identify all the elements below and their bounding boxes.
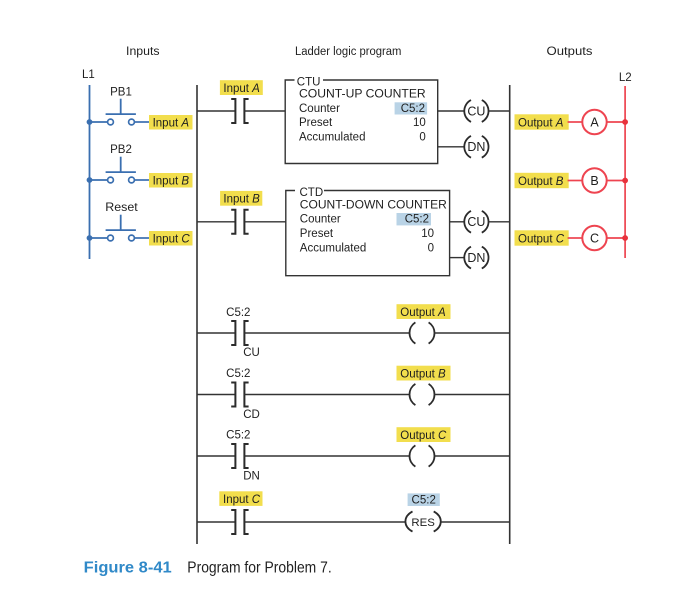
- svg-text:10: 10: [421, 228, 434, 240]
- wire CU coil (CTD) to right rail: [489, 221, 510, 223]
- wire CTD to CU coil: [450, 221, 464, 223]
- power rail L2 (red): [624, 86, 626, 258]
- svg-text:Input A: Input A: [223, 83, 260, 95]
- coil Output B: [410, 384, 435, 405]
- contact Input C (rung 6): [231, 510, 248, 534]
- svg-text:Input C: Input C: [223, 494, 261, 506]
- svg-text:L2: L2: [619, 72, 632, 84]
- wire contact to Output A coil: [244, 332, 410, 334]
- wire Output B coil to right rail: [435, 394, 510, 396]
- output device C: [582, 226, 606, 250]
- power rail L1 (blue): [89, 85, 91, 259]
- svg-text:0: 0: [419, 132, 425, 144]
- wire L1 to PB1: [90, 121, 108, 123]
- wire contact Input A to CTU block: [244, 110, 285, 112]
- svg-text:Counter: Counter: [300, 214, 341, 226]
- net label Input B (left): [149, 173, 193, 188]
- net label Output A (rung 3): [397, 304, 451, 319]
- wire PB1 to Input A label: [134, 121, 149, 123]
- svg-text:Program for Problem 7.: Program for Problem 7.: [187, 560, 331, 577]
- value C5:2 highlight (CTD): [397, 213, 432, 225]
- svg-text:L1: L1: [82, 69, 95, 81]
- svg-text:COUNT-UP COUNTER: COUNT-UP COUNTER: [299, 89, 426, 101]
- rung 5: wire left rail to contact C5:2/DN: [197, 455, 235, 457]
- rung 4: wire left rail to contact C5:2/CD: [197, 394, 235, 396]
- svg-text:C5:2: C5:2: [405, 214, 429, 226]
- net label Input A (left): [149, 115, 193, 130]
- svg-text:PB2: PB2: [110, 144, 132, 156]
- svg-text:C: C: [590, 232, 599, 246]
- svg-text:Preset: Preset: [300, 228, 334, 240]
- junction on L1 row C: [87, 235, 93, 241]
- value C5:2 highlight (CTU): [395, 102, 428, 114]
- svg-text:C5:2: C5:2: [412, 495, 436, 507]
- svg-text:CTD: CTD: [300, 187, 324, 199]
- svg-text:C5:2: C5:2: [226, 307, 250, 319]
- rung 2: wire left rail to contact Input B: [197, 221, 235, 223]
- wire CTU to DN coil: [438, 146, 464, 148]
- counter block CTD outline: [286, 191, 450, 276]
- wire Output C label to lamp C: [568, 237, 583, 239]
- svg-text:CU: CU: [467, 215, 485, 229]
- junction on L2 row A: [622, 119, 628, 125]
- svg-text:C5:2: C5:2: [226, 368, 250, 380]
- ladder right rail: [509, 85, 511, 544]
- svg-text:0: 0: [428, 242, 434, 254]
- svg-text:Reset: Reset: [105, 202, 138, 214]
- svg-text:Accumulated: Accumulated: [299, 132, 365, 144]
- pushbutton Reset (NO): [106, 215, 136, 241]
- svg-text:CU: CU: [243, 347, 260, 359]
- contact C5:2 CD: [231, 383, 248, 407]
- wire lamp A to L2: [607, 121, 625, 123]
- svg-text:CTU: CTU: [297, 77, 321, 89]
- wire Output C coil to right rail: [435, 455, 510, 457]
- coil Output C: [410, 445, 435, 466]
- rung 3: wire left rail to contact C5:2/CU: [197, 332, 235, 334]
- wire Output A coil to right rail: [435, 332, 510, 334]
- svg-text:DN: DN: [467, 251, 485, 265]
- pushbutton PB2 (NO): [106, 157, 136, 183]
- svg-text:CD: CD: [243, 409, 260, 421]
- wire CTD to DN coil: [450, 257, 464, 259]
- wire contact to Output C coil: [244, 455, 410, 457]
- junction on L1 row B: [87, 177, 93, 183]
- coil CU (CTU): [464, 100, 488, 122]
- svg-text:PB1: PB1: [110, 87, 132, 99]
- svg-text:RES: RES: [411, 517, 435, 529]
- rung 6: wire left rail to contact Input C: [197, 521, 235, 523]
- contact Input A: [231, 99, 248, 123]
- svg-text:Outputs: Outputs: [547, 46, 593, 58]
- wire lamp B to L2: [607, 180, 625, 182]
- wire contact Input B to CTD block: [244, 221, 285, 223]
- wire RES coil to right rail: [441, 521, 510, 523]
- rung 1: wire left rail to contact Input A: [197, 110, 235, 112]
- svg-text:Output B: Output B: [400, 369, 446, 381]
- pushbutton PB1 (NO): [106, 99, 136, 125]
- net label Output C (right): [515, 230, 569, 245]
- svg-text:C5:2: C5:2: [401, 103, 425, 115]
- svg-text:DN: DN: [243, 471, 260, 483]
- svg-text:CU: CU: [467, 104, 485, 118]
- coil Output A: [410, 322, 435, 343]
- wire Output B label to lamp B: [568, 180, 583, 182]
- figure caption: [84, 560, 332, 577]
- net label Output A (right): [515, 114, 569, 129]
- svg-text:COUNT-DOWN COUNTER: COUNT-DOWN COUNTER: [300, 199, 447, 211]
- output device A: [582, 110, 606, 134]
- junction on L2 row C: [622, 235, 628, 241]
- net label Input A (rung 1): [220, 80, 263, 95]
- svg-text:Figure 8-41: Figure 8-41: [84, 560, 172, 577]
- svg-text:Output A: Output A: [400, 307, 446, 319]
- svg-text:Counter: Counter: [299, 103, 340, 115]
- svg-text:A: A: [590, 116, 599, 130]
- svg-text:Output C: Output C: [518, 233, 565, 245]
- svg-text:B: B: [590, 174, 598, 188]
- net label Input C (left): [149, 231, 193, 246]
- wire Reset to Input C label: [134, 237, 149, 239]
- wire PB2 to Input B label: [134, 179, 149, 181]
- wire CTU to CU coil: [438, 110, 464, 112]
- coil RES: [405, 511, 440, 531]
- svg-text:Accumulated: Accumulated: [300, 242, 366, 254]
- wire CU coil to right rail: [489, 110, 510, 112]
- junction on L2 row B: [622, 178, 628, 184]
- coil DN (CTD): [464, 247, 488, 269]
- svg-text:Input B: Input B: [153, 175, 190, 187]
- net label Input C (rung 6): [219, 491, 262, 506]
- net label Output B (right): [515, 173, 569, 188]
- coil CU (CTD): [464, 211, 488, 233]
- wire contact to Output B coil: [244, 394, 410, 396]
- value C5:2 highlight (rung 6): [408, 493, 440, 506]
- contact C5:2 DN: [231, 444, 248, 468]
- svg-text:C5:2: C5:2: [226, 430, 250, 442]
- svg-text:Output A: Output A: [518, 117, 564, 129]
- svg-text:Inputs: Inputs: [126, 46, 160, 58]
- wire contact Input C to RES coil: [244, 521, 406, 523]
- svg-text:DN: DN: [467, 140, 485, 154]
- counter block CTU outline: [285, 80, 438, 164]
- net label Output B (rung 4): [397, 366, 451, 381]
- svg-text:Output C: Output C: [400, 430, 447, 442]
- svg-text:Output B: Output B: [518, 176, 564, 188]
- svg-text:Input B: Input B: [223, 194, 260, 206]
- net label Input B (rung 2): [220, 191, 262, 206]
- output device B: [582, 168, 606, 192]
- wire L1 to PB2: [90, 179, 108, 181]
- junction on L1 row A: [87, 119, 93, 125]
- svg-text:Input C: Input C: [153, 233, 191, 245]
- wire Output A label to lamp A: [568, 121, 583, 123]
- ladder left rail: [196, 85, 198, 544]
- contact Input B: [231, 210, 248, 234]
- contact C5:2 CU: [231, 321, 248, 345]
- wire lamp C to L2: [607, 237, 625, 239]
- svg-text:10: 10: [413, 117, 426, 129]
- net label Output C (rung 5): [397, 427, 451, 442]
- svg-text:Preset: Preset: [299, 117, 333, 129]
- coil DN (CTU): [464, 136, 488, 158]
- svg-text:Input A: Input A: [153, 117, 190, 129]
- wire L1 to Reset button: [90, 237, 108, 239]
- svg-text:Ladder logic program: Ladder logic program: [295, 46, 402, 58]
